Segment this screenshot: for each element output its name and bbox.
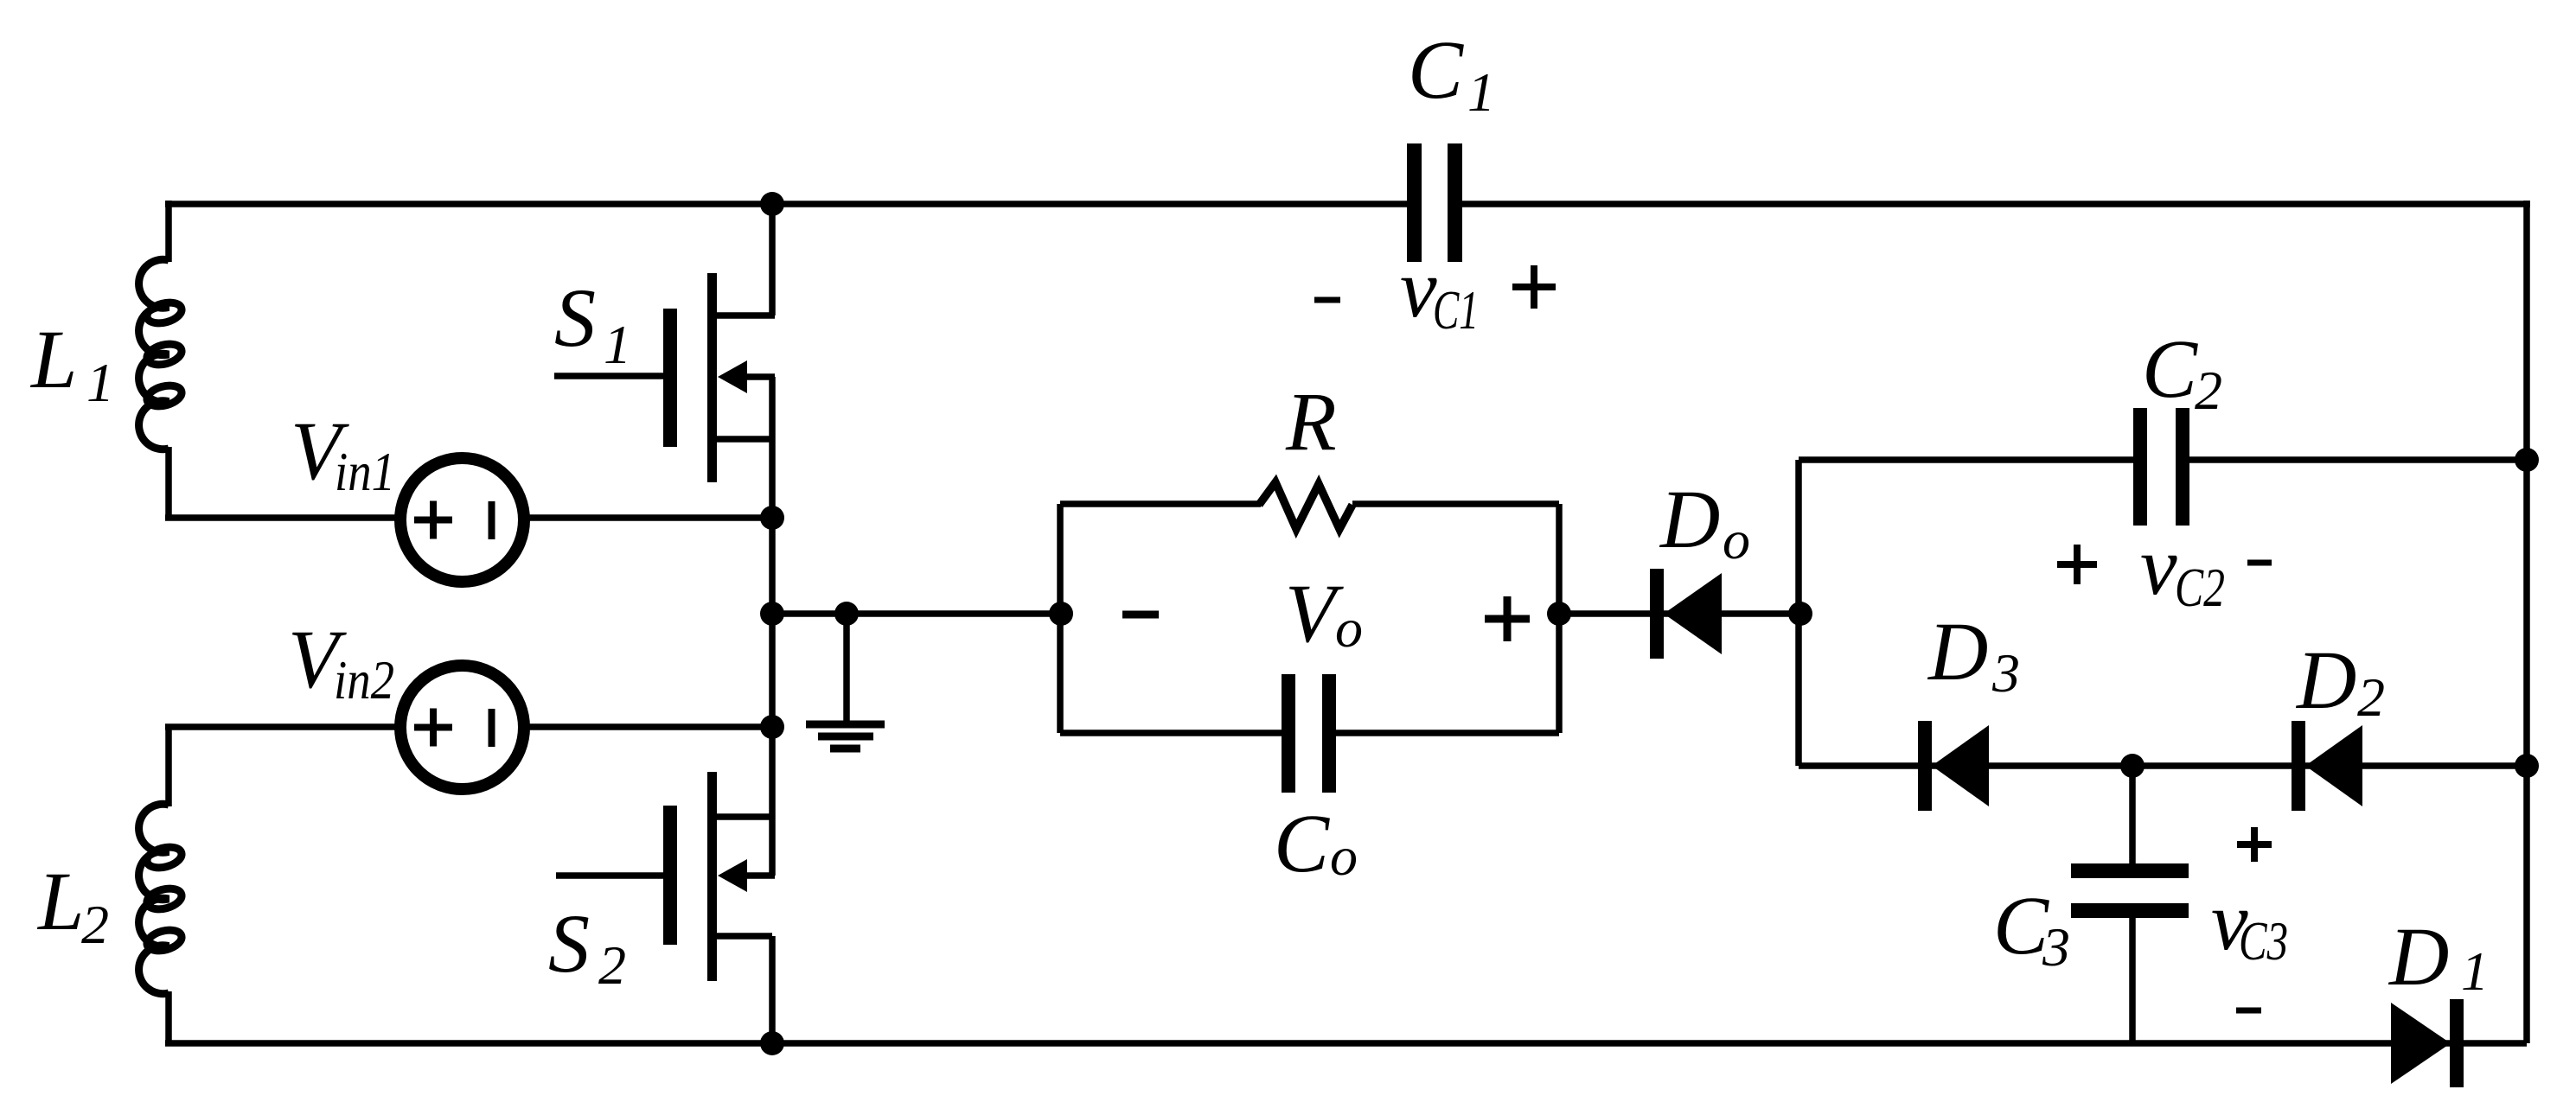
wire left rail below L2 xyxy=(165,991,172,1046)
svg-text:C3: C3 xyxy=(2239,910,2288,972)
svg-text:o: o xyxy=(1723,509,1750,570)
diode Do xyxy=(1650,569,1722,659)
label minus Vo xyxy=(1122,611,1159,619)
inductor L2 xyxy=(139,804,184,993)
svg-text:2: 2 xyxy=(2357,666,2385,728)
node C3 tee xyxy=(2120,754,2145,778)
label minus vC3 xyxy=(2236,1008,2261,1014)
svg-text:D: D xyxy=(1659,473,1720,565)
wire top rail right of C1 xyxy=(1451,201,2530,207)
svg-text:S: S xyxy=(548,897,590,990)
Vo box with R and Co xyxy=(1060,504,1559,733)
wire C3 stem lower xyxy=(2129,908,2136,1043)
wire left rail L2 top xyxy=(165,724,172,806)
node Vin1 junction xyxy=(760,506,784,530)
wire bottom rail xyxy=(165,1040,2527,1047)
svg-text:3: 3 xyxy=(2042,916,2070,978)
transistor S1 (MOSFET) xyxy=(554,273,775,482)
svg-text:v: v xyxy=(2140,519,2177,612)
svg-text:2: 2 xyxy=(598,934,626,996)
wire right rail xyxy=(2523,201,2530,1043)
wire Vin1 row left segment xyxy=(165,514,405,521)
node Vo box right xyxy=(1547,602,1571,626)
diode D2 xyxy=(2292,721,2362,811)
wire Vin2 row left segment xyxy=(165,723,405,730)
wire top rail left of C1 xyxy=(165,201,1418,207)
wire Vo box to Do node xyxy=(1559,610,1800,617)
capacitor Co xyxy=(1282,674,1336,793)
label minus vC2 xyxy=(2247,560,2272,566)
wire center vertical upper (S1 drain to top rail) xyxy=(769,204,776,315)
capacitor C3 xyxy=(2071,863,2189,918)
wire left rail upper (L1 branch) xyxy=(165,201,172,262)
svg-text:C: C xyxy=(1993,879,2049,972)
node Do output xyxy=(1788,602,1812,626)
svg-text:1: 1 xyxy=(86,352,114,413)
svg-text:C: C xyxy=(1274,797,1330,889)
wire center vertical lower (S2 source to bottom rail) xyxy=(769,936,776,1043)
svg-text:C: C xyxy=(2142,322,2198,415)
svg-text:L: L xyxy=(29,313,77,405)
diode D3 xyxy=(1918,721,1989,811)
svg-text:o: o xyxy=(1335,597,1363,659)
svg-text:C2: C2 xyxy=(2175,557,2225,618)
wire left rail below L1 xyxy=(165,447,172,520)
ground xyxy=(806,614,885,749)
node Vo box left xyxy=(1049,602,1073,626)
svg-text:3: 3 xyxy=(1991,642,2020,704)
voltage source Vin2 xyxy=(400,666,524,789)
label plus vC2 xyxy=(2057,545,2097,584)
wire Vin1 row right segment xyxy=(521,514,772,521)
wire Vin2 row right segment xyxy=(521,723,772,730)
node D2 right rail xyxy=(2515,754,2539,778)
svg-text:D: D xyxy=(1927,605,1988,698)
svg-text:1: 1 xyxy=(1467,61,1495,123)
node mid junction xyxy=(760,602,784,626)
svg-text:R: R xyxy=(1285,375,1337,468)
wire C2 row right of plates xyxy=(2179,456,2527,463)
transistor S2 (MOSFET) xyxy=(556,772,775,981)
resistor R xyxy=(1259,482,1352,529)
inductor L1 xyxy=(139,259,184,449)
svg-text:2: 2 xyxy=(2195,360,2222,421)
node C2 right rail xyxy=(2515,448,2539,472)
svg-text:1: 1 xyxy=(2461,940,2489,1002)
svg-text:S: S xyxy=(554,271,596,364)
label minus vC1 xyxy=(1314,297,1340,303)
label plus vC1 xyxy=(1512,265,1556,309)
svg-text:o: o xyxy=(1330,825,1358,887)
svg-text:L: L xyxy=(36,855,84,947)
node bottom junction xyxy=(760,1031,784,1055)
svg-text:2: 2 xyxy=(81,894,109,955)
svg-text:C1: C1 xyxy=(1433,279,1479,341)
wire center vertical middle (S1 source through Vin1, mid, Vin2 to S2 drain) xyxy=(769,377,776,876)
wire C3 stem upper xyxy=(2129,766,2136,873)
wire C2 row left of plates xyxy=(1799,456,2143,463)
node ground tee xyxy=(834,602,859,626)
capacitor C2 xyxy=(2133,408,2189,526)
node Vin2 junction xyxy=(760,715,784,739)
svg-text:in1: in1 xyxy=(335,441,395,502)
voltage source Vin1 xyxy=(400,458,524,582)
label plus Vo xyxy=(1485,596,1530,641)
wire C2 branch vertical xyxy=(1795,460,1802,766)
svg-text:v: v xyxy=(1400,242,1437,334)
svg-text:D: D xyxy=(2387,910,2449,1003)
wire diode row D3 D2 xyxy=(1799,762,2527,769)
svg-text:D: D xyxy=(2295,634,2356,726)
capacitor C1 xyxy=(1407,143,1462,262)
wire mid output row to Vo box xyxy=(772,610,1060,617)
svg-text:in2: in2 xyxy=(334,649,394,710)
node top junction xyxy=(760,192,784,216)
label plus vC3 xyxy=(2237,827,2272,862)
svg-text:1: 1 xyxy=(604,314,631,375)
svg-text:C: C xyxy=(1408,23,1464,116)
diode D1 xyxy=(2391,999,2464,1087)
